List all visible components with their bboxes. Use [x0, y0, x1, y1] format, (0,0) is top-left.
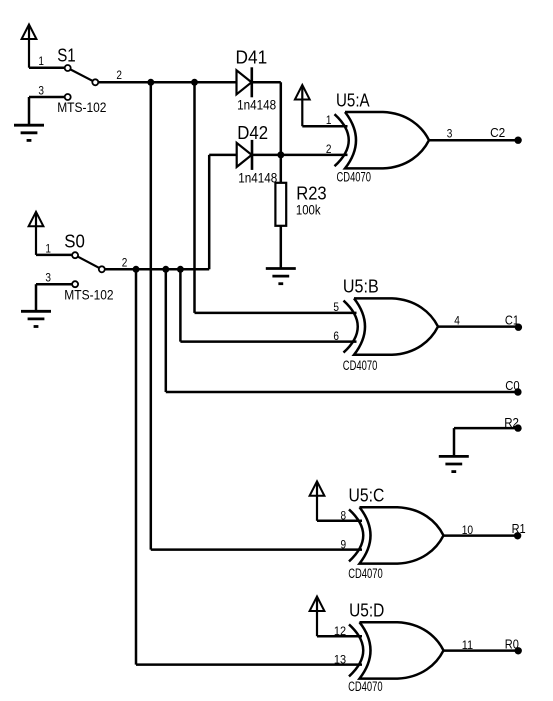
power flag at S1 pin 1: [22, 25, 37, 68]
power flag at U5:A pin 1: [295, 85, 310, 126]
wire net R1 from U5:C pin 10: [444, 534, 518, 537]
wire R23 to ground: [280, 226, 283, 269]
ground at R23: [266, 269, 296, 284]
switch S0 pin 3 contact: [72, 281, 78, 287]
switch S1 pin 3 contact: [65, 94, 71, 100]
svg-text:13: 13: [334, 652, 346, 666]
wire riser net S0 down to net C0: [165, 269, 168, 392]
wire S0 pin 3 to ground: [36, 284, 72, 311]
wire U5:D pin 13 horizontal: [136, 663, 362, 666]
svg-text:R2: R2: [504, 415, 519, 430]
wire S0 pin 1: [36, 254, 72, 257]
node R0 terminal: [515, 647, 522, 654]
wire riser net S0 down to U5:D pin 13: [135, 269, 138, 664]
junction net S1 to U5:C pin 9 riser: [147, 79, 154, 86]
svg-text:U5:D: U5:D: [349, 601, 384, 621]
wire D42 cathode to U5:A pin 2: [252, 154, 348, 157]
wire riser net S0 up to D42 anode: [208, 155, 211, 269]
xor gate U5:C: [349, 507, 444, 563]
diode D41: [237, 67, 252, 97]
svg-text:12: 12: [334, 624, 346, 638]
node C1 terminal: [515, 324, 522, 331]
svg-text:R0: R0: [505, 636, 519, 651]
svg-text:1n4148: 1n4148: [238, 171, 277, 186]
wire net C2 from U5:A pin 3: [429, 139, 518, 142]
svg-text:1: 1: [38, 54, 44, 68]
svg-text:8: 8: [341, 509, 347, 523]
svg-text:CD4070: CD4070: [348, 679, 383, 694]
node R2 terminal: [514, 424, 521, 431]
svg-text:1n4148: 1n4148: [237, 97, 276, 112]
wire U5:D pin 12: [317, 635, 362, 638]
svg-text:CD4070: CD4070: [343, 358, 378, 373]
wire net R0 from U5:D pin 11: [444, 649, 519, 652]
wire riser net S1 down to U5:B pin 5: [193, 82, 196, 313]
diode D42: [237, 140, 252, 170]
wire D41 cathode to junction: [252, 82, 281, 155]
power flag at U5:C pin 8: [310, 481, 325, 521]
ground at S1: [14, 125, 44, 140]
switch S1: [65, 65, 99, 85]
power flag at U5:D pin 12: [310, 597, 325, 637]
xor gate U5:D: [349, 622, 444, 678]
wire S1 pin 3 to ground: [29, 97, 65, 125]
wire net C0: [166, 391, 518, 394]
svg-text:U5:C: U5:C: [349, 485, 385, 505]
resistor R23: [275, 183, 286, 226]
svg-text:100k: 100k: [296, 203, 321, 218]
svg-text:C1: C1: [505, 312, 519, 327]
wire net S0: switch S0 pin 2 to D42 riser: [105, 268, 209, 271]
svg-text:CD4070: CD4070: [337, 169, 372, 184]
node R1 terminal: [514, 532, 521, 539]
power flag at S0 pin 1: [29, 212, 44, 255]
wire net C1 from U5:B pin 4: [438, 325, 518, 328]
switch S0: [72, 252, 105, 272]
wire U5:B pin 5 horizontal: [195, 312, 357, 315]
xor gate U5:B: [344, 298, 439, 354]
svg-text:S1: S1: [57, 46, 75, 66]
wire U5:A pin 1: [302, 125, 347, 128]
svg-text:MTS-102: MTS-102: [64, 287, 113, 302]
wire U5:C pin 9 horizontal: [151, 548, 362, 551]
svg-text:S0: S0: [64, 232, 85, 252]
svg-text:2: 2: [122, 255, 128, 269]
svg-text:C2: C2: [490, 125, 505, 140]
wire S1 pin 1: [29, 66, 65, 69]
svg-text:6: 6: [333, 329, 339, 343]
svg-text:MTS-102: MTS-102: [57, 100, 106, 115]
svg-text:9: 9: [341, 537, 347, 551]
svg-text:D41: D41: [236, 48, 268, 68]
junction net S0 to U5:D pin 13 riser: [133, 266, 140, 273]
wire riser net S0 down to U5:B pin 6: [179, 269, 182, 341]
svg-text:U5:A: U5:A: [336, 91, 370, 111]
junction net S1 to U5:B pin 5 riser: [191, 79, 198, 86]
wire net S1: switch S1 pin 2 to D41 anode: [98, 81, 236, 84]
svg-text:1: 1: [45, 241, 51, 255]
junction node D41/D42/R23/U5:A pin 2: [277, 151, 284, 158]
svg-text:3: 3: [38, 83, 44, 97]
xor gate U5:A: [335, 112, 430, 168]
node C0 terminal: [514, 388, 521, 395]
svg-text:R23: R23: [296, 183, 327, 203]
svg-text:R1: R1: [512, 521, 526, 536]
wire D42 anode: [209, 154, 237, 157]
svg-text:2: 2: [326, 142, 332, 156]
node C2 terminal: [514, 137, 521, 144]
svg-text:D42: D42: [237, 123, 268, 143]
svg-text:CD4070: CD4070: [348, 566, 383, 581]
junction net S0 to net C0 riser: [162, 266, 169, 273]
svg-text:C0: C0: [505, 378, 519, 393]
svg-text:U5:B: U5:B: [343, 277, 379, 297]
svg-text:2: 2: [116, 68, 122, 82]
wire U5:B pin 6 horizontal: [180, 340, 356, 343]
svg-text:3: 3: [45, 270, 51, 284]
junction net S0 to U5:B pin 6 riser: [177, 266, 184, 273]
wire U5:C pin 8: [317, 520, 362, 523]
svg-text:5: 5: [333, 300, 339, 314]
wire junction to R23: [280, 155, 283, 183]
ground at S0: [21, 311, 51, 326]
ground at net R2: [439, 456, 469, 471]
svg-text:1: 1: [326, 113, 332, 127]
svg-text:3: 3: [447, 127, 453, 141]
wire net R2: [454, 428, 518, 455]
wire riser net S1 down to U5:C pin 9: [150, 82, 153, 549]
